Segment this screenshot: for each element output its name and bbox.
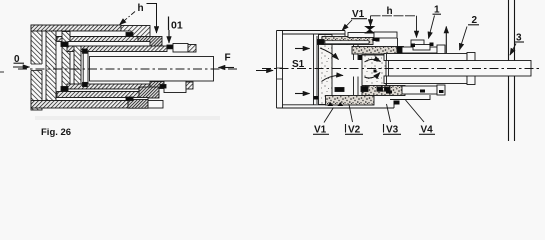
rod gland hatch piece bottom	[186, 82, 193, 89]
stage-1 sleeve top wall (stippled)	[322, 37, 373, 45]
outer bottom end block	[148, 101, 163, 109]
gland block seal right	[430, 43, 434, 47]
edge dash left	[0, 71, 4, 73]
stage-2 sleeve top wall (stippled)	[352, 47, 402, 55]
sleeve-1b white band	[56, 98, 148, 101]
seal square top a	[61, 42, 68, 47]
wall line 2	[514, 0, 516, 141]
rod gland hatch piece top	[188, 45, 196, 53]
bottom gland seal block	[394, 101, 400, 105]
flow up arrow	[445, 27, 447, 54]
centerline right figure	[262, 68, 541, 70]
bottom band seal blob a	[386, 91, 392, 94]
stage-1 corner seal	[318, 40, 325, 45]
stage-2 sleeve bottom wall	[57, 92, 139, 98]
label V1 bottom	[313, 108, 334, 136]
stage-4 inner wall lines	[386, 54, 388, 61]
scan smudge under left figure	[35, 116, 220, 120]
label V2 bottom	[345, 105, 363, 136]
sleeve-1 white band	[56, 31, 131, 37]
bottom band seal triangles	[328, 102, 344, 106]
label 0 with arrow	[13, 54, 30, 67]
svg-text:Fig. 26: Fig. 26	[41, 127, 71, 138]
label 01 with leader	[169, 17, 183, 44]
stage-2 piston center pin	[374, 70, 377, 73]
sleeve-2b white band	[66, 89, 150, 92]
label F with arrow	[219, 53, 235, 68]
stage-1 top corner seal	[373, 37, 378, 42]
piston joint line 2	[87, 52, 89, 87]
top small gland blocks	[411, 40, 424, 47]
stage-4 sleeve top wall	[384, 54, 467, 61]
stage-3 sleeve bottom wall	[67, 84, 150, 89]
outer barrel bottom wall	[31, 101, 128, 109]
piston rod	[90, 57, 214, 82]
centerline left figure	[18, 68, 238, 70]
outer barrel top wall	[31, 25, 121, 31]
stage-3 sleeve bottom wall	[402, 86, 437, 94]
seal square top c	[126, 33, 133, 37]
stage-2 bottom seal square b	[377, 87, 383, 91]
flow arrow in stage-1 upper	[320, 48, 339, 60]
stage-1 sleeve bottom wall (stippled)	[326, 96, 375, 106]
stage-3 sleeve top wall	[402, 47, 437, 53]
bottom gland step line	[390, 95, 430, 100]
outer tube top wall	[277, 30, 346, 32]
port box corner seal	[376, 38, 380, 42]
seal square bottom a	[61, 87, 68, 92]
outer barrel left end wall	[31, 25, 42, 110]
label V1 top	[342, 9, 367, 31]
stage-1 top wall inner strip	[325, 41, 369, 44]
port box right drop line	[397, 38, 399, 47]
cap port tick lower	[277, 78, 283, 80]
stage-2 bottom seal square c	[385, 87, 391, 91]
outer bottom seal pack	[128, 100, 148, 109]
bottom band seal blob c	[439, 90, 444, 93]
bottom band seal blob b	[420, 90, 425, 93]
flow arrow S1 top	[295, 48, 310, 50]
port lower edge	[31, 70, 42, 72]
seal square bottom b	[83, 82, 88, 86]
stage-2 sleeve top wall	[57, 37, 138, 42]
chamber wall port tick	[314, 96, 319, 100]
top port pad	[348, 33, 374, 38]
stage-3 bottom end block	[437, 85, 445, 95]
flow arrow S1 bottom	[295, 93, 310, 95]
seal square 01	[167, 45, 173, 49]
outer tube bottom wall	[277, 107, 395, 109]
stage-2 piston block (stippled)	[362, 55, 386, 86]
stage-2 piston column	[62, 32, 70, 102]
seal square top b	[83, 49, 88, 53]
stage-4 bottom end block	[467, 75, 475, 85]
label 3	[510, 33, 524, 56]
label 2	[460, 15, 480, 50]
svg-text:h: h	[138, 3, 144, 14]
sleeve-2 white band	[68, 42, 150, 47]
stage-2 bottom seal pack	[139, 87, 159, 98]
stage-1 tube end walls	[353, 45, 355, 61]
port upper edge	[31, 63, 42, 65]
inlet arrow right figure	[256, 70, 273, 72]
stage-2 top seal pack	[138, 37, 162, 49]
inner cap wall	[46, 30, 56, 104]
stage-4 top end block	[467, 53, 475, 63]
seal square bottom c	[126, 97, 133, 101]
wall line 1	[508, 0, 510, 141]
seal square bottom d	[160, 85, 166, 89]
stage-2 sleeve bottom wall (stippled)	[362, 86, 405, 96]
piston joint line	[82, 49, 84, 87]
stage-3 piston column	[74, 46, 81, 89]
stage-3 sleeve top wall	[67, 46, 167, 52]
stage-4 sleeve bottom wall	[384, 76, 467, 84]
cap port tick upper	[277, 67, 283, 69]
flow arrow in stage-2 upper	[365, 59, 381, 62]
piston rod right figure	[389, 61, 532, 77]
label V3 bottom	[383, 104, 401, 136]
label V4 bottom	[406, 100, 436, 136]
bleed valve bowtie	[366, 27, 375, 34]
port side box	[374, 32, 397, 38]
flow arrow in stage-2 lower	[365, 73, 381, 79]
rod gland nut top	[173, 44, 188, 53]
svg-text:01: 01	[171, 20, 183, 32]
stage-3 bottom seal pack	[150, 82, 164, 89]
stage-3 top end block	[437, 45, 445, 54]
label h right figure	[371, 6, 417, 38]
label h left figure	[120, 3, 157, 33]
chamber S1 right wall	[313, 34, 315, 105]
rod gland nut bottom	[164, 81, 186, 93]
stage-2 top seal square	[397, 47, 404, 54]
label 1	[429, 5, 442, 39]
svg-text:F: F	[225, 53, 231, 64]
stage-1 piston column (stippled)	[319, 35, 333, 105]
flow arrow in stage-1 lower	[322, 75, 344, 81]
stage-2 bottom seal square	[361, 87, 368, 92]
gland block seal left	[411, 44, 415, 48]
stage-1 seal square	[335, 88, 344, 92]
outer barrel head block	[121, 26, 150, 39]
outer tube left cap	[276, 31, 278, 109]
stage-2 left edge seal	[359, 55, 363, 60]
